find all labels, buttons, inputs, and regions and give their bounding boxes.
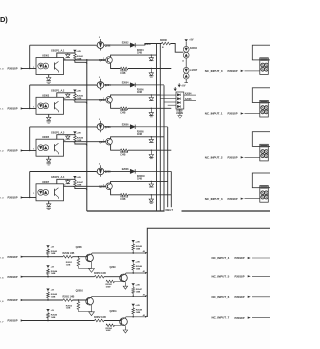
wire feedback top row 3 (30, 126, 97, 128)
svg-text:A2004: A2004 (185, 92, 192, 95)
svg-text:1: 1 (96, 127, 97, 129)
svg-text:D): D) (0, 15, 8, 24)
svg-text:1/4B: 1/4B (51, 272, 56, 275)
ground below box row 2 (47, 121, 51, 123)
svg-text:1: 1 (96, 85, 97, 87)
wire Q209 emitter row 4 (111, 189, 121, 195)
svg-text:GB1P1_A.4: GB1P1_A.4 (51, 175, 65, 179)
wire input row 1 (21, 68, 36, 70)
wire box top stub row 3 (57, 135, 75, 140)
wire Q204 output row 2 (104, 84, 130, 86)
svg-text:Q2011: Q2011 (110, 310, 118, 313)
power +24V arrow row 6 (132, 283, 135, 286)
svg-text:P2002/P: P2002/P (8, 196, 18, 200)
svg-text:E2004: E2004 (122, 82, 129, 85)
svg-text:R2051 1/4B: R2051 1/4B (63, 295, 75, 298)
transistor Q204 row 2 (97, 82, 104, 89)
diode clamp upper row 2 (150, 95, 152, 98)
wire input row 6 (21, 299, 87, 301)
ground cluster (179, 109, 181, 116)
wire emitter output row 3 (128, 149, 171, 151)
opto phototransistor row 2 (54, 102, 56, 109)
svg-text:1: 1 (96, 45, 97, 47)
resistor R2045 row 4 (132, 243, 134, 244)
ground below box row 1 (47, 81, 51, 83)
svg-text:C/4B: C/4B (137, 178, 142, 181)
svg-text:GB1P1_A.2: GB1P1_A.2 (51, 89, 65, 93)
svg-text:+24V: +24V (135, 304, 140, 307)
svg-text:P2002/P: P2002/P (8, 149, 18, 153)
svg-text:P2002/P: P2002/P (228, 69, 238, 73)
svg-text:C/4B: C/4B (120, 198, 125, 201)
wire chain bottom (185, 79, 187, 83)
transistor Q206 row 3 (97, 124, 104, 131)
svg-text:C/4B: C/4B (120, 112, 125, 115)
opto LED A row 4 (38, 189, 44, 195)
svg-text:NC_INPUT_6: NC_INPUT_6 (212, 295, 230, 299)
svg-text:U2007: U2007 (42, 181, 50, 184)
power +24V arrow row 4 (132, 240, 135, 243)
bus corner to line (87, 210, 270, 212)
power +5V arrow cluster (178, 85, 181, 88)
svg-text:1: 1 (33, 67, 34, 69)
wire feedback top row 1 (30, 44, 97, 46)
diode K2005 (183, 52, 189, 58)
svg-text:1/4B: 1/4B (136, 311, 141, 314)
resistor R2051 row 6 (63, 298, 73, 301)
opto-coupler U2005 box (36, 139, 64, 156)
resistor R2046 row 5 (132, 263, 134, 264)
wire feedback stub row 2 (29, 85, 31, 109)
wire Q207 collector row 3 (111, 137, 164, 139)
svg-text:+24V: +24V (76, 132, 81, 135)
connector pins 1 (261, 106, 265, 110)
resistor R2008 row 2 (121, 107, 129, 110)
wire box output row 4 (64, 185, 106, 187)
diode D clamp row 1 (67, 53, 69, 54)
bus vertical V2 (159, 44, 161, 212)
svg-text:Q203: Q203 (99, 59, 106, 62)
wire input row 7 (21, 320, 121, 322)
resistor R2047 row 4 (74, 180, 77, 187)
wire input row 5 (21, 276, 121, 278)
wire box top stub row 4 (57, 179, 75, 184)
svg-text:+24V: +24V (76, 90, 81, 93)
svg-text:A: A (182, 60, 184, 63)
wire cluster out A2006 (184, 100, 196, 102)
svg-text:Q205: Q205 (99, 99, 106, 102)
opto LED B row 3 (43, 145, 49, 151)
svg-text:B: B (162, 47, 164, 49)
connector hatch band 2 (260, 145, 268, 147)
svg-text:NC_INPUT_4: NC_INPUT_4 (212, 256, 230, 260)
power +24V arrow row 2 (73, 90, 76, 93)
wire box top stub row 1 (57, 53, 75, 58)
bus vertical V1 (156, 44, 158, 212)
ground row 7 (123, 330, 127, 333)
svg-text:U2001: U2001 (42, 55, 50, 58)
wire feedback stub row 3 (29, 127, 31, 151)
wire after diode row 1 (135, 44, 145, 46)
diode J2008 (183, 73, 189, 79)
svg-text:NC_INPUT_0: NC_INPUT_0 (205, 69, 223, 73)
wire input row 2 (21, 108, 36, 110)
diode clamp lower row 2 (150, 108, 152, 112)
junction dots row 4 (47, 256, 48, 257)
wire collector row 4 (92, 252, 146, 255)
wire resistor to bus row 1 (75, 61, 87, 64)
pin crosses 2 (262, 151, 264, 153)
diode D clamp row 2 (67, 93, 69, 94)
svg-text:Q208: Q208 (76, 246, 83, 249)
pin crosses 3 (262, 192, 264, 194)
wire box top stub row 2 (57, 93, 75, 98)
connector pins 3 (261, 191, 265, 195)
diode clamp lower row 4 (150, 195, 152, 199)
svg-text:E2002: E2002 (122, 42, 129, 45)
wire box output row 3 (64, 141, 106, 143)
connector module outer box 2 (252, 132, 271, 147)
svg-text:1/2B: 1/2B (66, 264, 71, 266)
svg-text:NC_INPUT_1: NC_INPUT_1 (205, 112, 223, 116)
transistor Q207 row 3 (106, 138, 113, 145)
svg-text:I_4: I_4 (0, 257, 4, 260)
opto phototransistor row 3 (54, 144, 56, 151)
svg-text:P2003/P: P2003/P (8, 255, 18, 259)
opto LED B row 2 (43, 103, 49, 109)
svg-text:Q209: Q209 (99, 185, 106, 188)
transistor Q209 row 5 (120, 274, 128, 282)
svg-text:I_2: I_2 (0, 151, 4, 153)
power +5V arrow pullup row 7 (46, 309, 49, 312)
resistor R2046 row 7 (47, 313, 50, 318)
diode D clamp row 4 (67, 179, 69, 180)
resistor R2045 row 3 (74, 136, 77, 143)
svg-text:A3: A3 (143, 314, 145, 317)
svg-text:1: 1 (33, 149, 34, 151)
svg-text:2: 2 (99, 37, 101, 39)
junction dots row 7 (47, 320, 48, 321)
wire feedback stub row 4 (29, 172, 31, 198)
junction dots row 4 (74, 179, 75, 180)
resistor R2052 row 7 (95, 319, 105, 322)
svg-text:P2003/P: P2003/P (8, 275, 18, 279)
opto LED A row 3 (38, 145, 44, 151)
wire R2006 to diode chain (171, 44, 184, 53)
power +5V arrow chain top (185, 39, 188, 42)
svg-text:1/4B: 1/4B (136, 267, 141, 270)
diode array inside U2002 (177, 94, 180, 96)
svg-text:P2002/P: P2002/P (228, 197, 238, 201)
svg-text:C/4B: C/4B (120, 72, 125, 75)
wire emitter output row 1 (128, 68, 171, 70)
wire Q203 collector row 1 (111, 55, 157, 57)
connector P2002 inner box 3 (260, 186, 269, 203)
svg-text:P2003/P: P2003/P (235, 316, 245, 320)
wire NC_INPUT_6 right (252, 296, 270, 298)
wire NC_INPUT_1 (245, 113, 260, 115)
wire NC_INPUT_0 (245, 70, 260, 72)
svg-text:R2052 1/4B: R2052 1/4B (94, 316, 106, 319)
wire feedback top row 4 (30, 171, 97, 173)
comparator U2002 box (176, 92, 184, 109)
power +24V arrow row 3 (73, 131, 76, 134)
svg-text:P2002/P: P2002/P (8, 107, 18, 111)
svg-text:K2006: K2006 (144, 44, 151, 46)
connector pins 2 (261, 150, 265, 154)
svg-text:P2002/P: P2002/P (228, 112, 238, 116)
wire NC_INPUT_2 (245, 156, 260, 158)
svg-text:1/4B: 1/4B (136, 247, 141, 250)
wire input row 3 (21, 150, 36, 152)
resistor R2054 row 7 (120, 324, 122, 326)
svg-text:R2006: R2006 (160, 39, 168, 42)
resistor R2043 row 2 (74, 94, 77, 101)
junction dots row 1 (74, 52, 75, 53)
bus vertical V4 (167, 127, 169, 211)
wire after diode row 3 (135, 126, 168, 128)
resistor R2048 row 7 (132, 307, 134, 308)
power +5V arrow pullup row 4 (46, 245, 49, 248)
diode clamp lower row 3 (150, 150, 152, 154)
svg-text:NC_INPUT_2: NC_INPUT_2 (205, 156, 223, 160)
wire NC_INPUT_5 right (252, 275, 270, 277)
svg-text:GB1P1_A.1: GB1P1_A.1 (51, 49, 65, 53)
svg-text:1/4B: 1/4B (51, 296, 56, 299)
bus vertical V3 (163, 85, 165, 211)
svg-text:P2003/P: P2003/P (235, 256, 245, 260)
svg-text:I_3: I_3 (0, 198, 4, 200)
wire after diode row 2 (135, 84, 164, 86)
diode clamp upper row 1 (150, 55, 152, 58)
diode K2004 (183, 46, 189, 52)
label DB3-T (165, 207, 182, 212)
svg-text:GB1P1_A.3: GB1P1_A.3 (51, 130, 65, 134)
opto phototransistor row 1 (54, 63, 56, 70)
wire resistor to bus row 2 (75, 101, 87, 104)
wire pullup stub row 5 (47, 274, 49, 276)
svg-text:P2003/P: P2003/P (8, 319, 18, 323)
wire pullup stub row 7 (47, 318, 49, 320)
resistor R2053 row 6 (77, 300, 79, 302)
connector P2002 inner box 2 (260, 144, 269, 161)
svg-text:P2002/P: P2002/P (8, 67, 18, 71)
wire collector row 6 (92, 295, 146, 298)
wire box output row 2 (64, 99, 106, 101)
resistor R2050 row 5 (95, 275, 105, 278)
resistor R2047 row 6 (132, 286, 134, 287)
wire Q206 output row 3 (104, 126, 130, 128)
svg-text:I_7: I_7 (0, 321, 4, 323)
diode below box row 2 (48, 114, 50, 117)
ground row 4 (89, 269, 95, 273)
wire pullup stub row 6 (47, 298, 49, 300)
transistor Q208 row 4 (86, 254, 94, 262)
transistor Q2010 row 6 (86, 297, 94, 305)
wire Q202 output row 1 (104, 44, 130, 46)
svg-text:1/2B: 1/2B (66, 308, 71, 310)
ground below box row 4 (47, 207, 51, 209)
connector hatch band 1 (260, 101, 268, 103)
opto LED B row 4 (43, 189, 49, 195)
pin crosses 1 (262, 107, 264, 109)
resistor R2006 (162, 42, 171, 45)
wire collector row 5 (125, 272, 145, 275)
diode clamp upper row 3 (150, 137, 152, 140)
svg-text:P2003/P: P2003/P (8, 298, 18, 302)
wire chain mid (185, 58, 187, 67)
svg-text:P2003/P: P2003/P (235, 295, 245, 299)
bus vertical V5 (170, 172, 172, 212)
junction dots row 3 (74, 134, 75, 135)
svg-text:J-2007: J-2007 (190, 69, 198, 72)
svg-text:C/4B: C/4B (137, 133, 142, 136)
svg-text:NC_INPUT_7: NC_INPUT_7 (212, 316, 230, 320)
power +24V arrow row 7 (132, 304, 135, 307)
wire box output row 1 (64, 59, 106, 61)
junction dots row 5 (47, 276, 48, 277)
wire cluster in stubs (157, 94, 177, 96)
svg-text:DB3-T: DB3-T (166, 208, 174, 212)
wire input row 4 (21, 197, 36, 199)
svg-text:2: 2 (99, 164, 101, 166)
junction dots row 2 (74, 92, 75, 93)
svg-text:E2008: E2008 (122, 168, 129, 171)
resistor R2041 row 1 (74, 54, 77, 61)
svg-text:+24V: +24V (76, 50, 81, 53)
transistor Q202 row 1 (97, 42, 104, 49)
connector module outer box 1 (252, 88, 271, 103)
junction dots row 7 (47, 320, 48, 321)
svg-text:I_5: I_5 (0, 278, 4, 280)
svg-text:U2005: U2005 (42, 136, 50, 139)
wire emitter output row 4 (128, 194, 171, 196)
wire feedback top row 2 (30, 84, 97, 86)
wire NC_INPUT_7 right (252, 317, 270, 319)
junction dots row 6 (47, 299, 48, 300)
svg-text:A2006: A2006 (185, 98, 192, 101)
svg-text:2: 2 (99, 119, 101, 121)
resistor R2051 row 4 (77, 257, 79, 259)
svg-text:E2006: E2006 (122, 123, 129, 126)
wire Q205 collector row 2 (111, 95, 161, 97)
svg-text:Q207: Q207 (99, 141, 106, 144)
wire resistor to bus row 3 (75, 143, 87, 146)
resistor R20010 row 3 (121, 149, 129, 152)
wire Q203 emitter row 1 (111, 63, 121, 69)
wire emitter row 7 (124, 326, 126, 330)
svg-text:R2049 1/4B: R2049 1/4B (63, 252, 75, 255)
power +24V arrow row 5 (132, 260, 135, 263)
svg-text:+24V: +24V (135, 284, 140, 287)
diode E2008 row 4 (130, 169, 135, 173)
opto phototransistor row 4 (54, 189, 56, 196)
pin crosses 0 (262, 64, 264, 66)
transistor Q209 row 4 (106, 183, 113, 190)
wire pullup stub row 4 (47, 254, 49, 256)
connector hatch band 3 (260, 186, 268, 188)
connector P2002 inner box 0 (260, 58, 269, 75)
diode J2007 (183, 67, 189, 73)
svg-text:1/4B: 1/4B (51, 252, 56, 255)
diode D clamp row 3 (67, 135, 69, 136)
wire cluster out A2004 (184, 94, 196, 96)
junction dots row 6 (47, 299, 48, 300)
svg-text:+5V: +5V (181, 84, 186, 87)
connector module outer box 0 (252, 45, 271, 60)
svg-text:A2: A2 (143, 293, 145, 296)
diode below box row 4 (48, 201, 50, 204)
opto-coupler U2007 box (36, 184, 64, 201)
svg-text:+5V: +5V (51, 310, 55, 312)
svg-text:2: 2 (99, 77, 101, 79)
diode clamp upper row 4 (150, 181, 152, 184)
wire emitter row 5 (124, 282, 126, 286)
wire NC_INPUT_3 (245, 198, 260, 200)
resistor R20012 row 4 (121, 194, 129, 197)
svg-text:K2004: K2004 (190, 47, 198, 50)
resistor R2044 row 5 (47, 269, 50, 274)
power arrow cluster 2 (174, 89, 177, 92)
ground row 5 (123, 286, 127, 289)
svg-text:Q209: Q209 (110, 266, 117, 269)
power +5V arrow pullup row 5 (46, 265, 49, 268)
junction dots row 5 (47, 276, 48, 277)
wire after diode row 4 (135, 170, 171, 172)
svg-text:I_6: I_6 (0, 301, 4, 303)
svg-text:U2003: U2003 (42, 94, 50, 97)
opto LED A row 2 (38, 103, 44, 109)
junction dots row 4 (47, 256, 48, 257)
opto-coupler U2003 box (36, 97, 64, 114)
wire Q205 emitter row 2 (111, 103, 121, 109)
svg-text:1/4B: 1/4B (136, 291, 141, 294)
diode E2004 row 2 (130, 83, 135, 87)
wire input row 4 (21, 256, 87, 258)
opto LED B row 1 (43, 63, 49, 69)
transistor Q208 row 4 (97, 168, 104, 175)
diode clamp lower row 1 (150, 69, 152, 73)
svg-text:+24V: +24V (135, 240, 140, 243)
resistor R2052 row 5 (120, 280, 122, 282)
ground row 6 (89, 312, 95, 316)
connector hatch band 0 (260, 58, 268, 60)
transistor Q2011 row 7 (120, 318, 128, 326)
wire emitter row 6 (91, 305, 93, 311)
svg-text:1: 1 (33, 193, 34, 195)
svg-text:I_1: I_1 (0, 109, 4, 111)
diode below box row 3 (48, 156, 50, 159)
svg-text:NC_INPUT_3: NC_INPUT_3 (205, 197, 223, 201)
svg-text:+24V: +24V (76, 176, 81, 179)
wire collector row 7 (125, 316, 145, 319)
connector P2002 inner box 1 (260, 100, 269, 117)
wire row1 to R2006 (144, 44, 146, 46)
bus vertical left A (86, 59, 88, 211)
svg-text:+5V: +5V (51, 246, 55, 248)
opto LED A row 1 (38, 63, 44, 69)
diode below box row 1 (48, 75, 50, 78)
svg-text:1: 1 (33, 107, 34, 109)
svg-text:+5V: +5V (51, 290, 55, 292)
wire emitter row 4 (91, 262, 93, 268)
svg-text:I_0: I_0 (0, 69, 4, 71)
wire Q209 collector row 4 (111, 181, 168, 183)
svg-text:+5V: +5V (51, 266, 55, 268)
diode E2006 row 3 (130, 125, 135, 129)
transistor Q205 row 2 (106, 97, 113, 104)
svg-text:P2002/P: P2002/P (228, 156, 238, 160)
